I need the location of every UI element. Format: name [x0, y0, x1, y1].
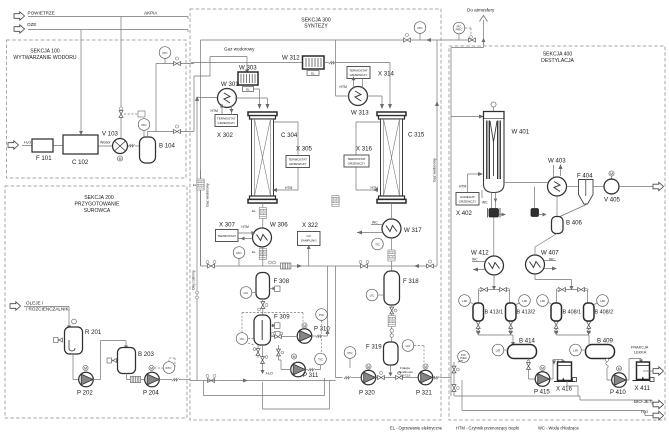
svg-text:F 309: F 309 [274, 314, 290, 321]
svg-text:P 202: P 202 [77, 390, 93, 397]
svg-text:LIR: LIR [540, 299, 546, 303]
svg-text:LIR: LIR [600, 299, 606, 303]
svg-text:PIC: PIC [236, 251, 242, 255]
svg-text:B 414: B 414 [519, 338, 536, 345]
svg-text:X 314: X 314 [378, 71, 395, 78]
svg-text:SUROWCA: SUROWCA [84, 208, 111, 214]
svg-text:C9-C19: C9-C19 [400, 374, 411, 378]
svg-text:AKPiA: AKPiA [144, 10, 158, 15]
svg-text:F 318: F 318 [403, 278, 419, 285]
svg-text:DESTYLACJA: DESTYLACJA [541, 58, 574, 64]
svg-text:X 305: X 305 [296, 146, 313, 153]
svg-text:EL: EL [246, 88, 250, 92]
svg-text:W 312: W 312 [282, 55, 300, 62]
svg-text:V 405: V 405 [604, 197, 621, 204]
svg-text:V 103: V 103 [102, 131, 119, 138]
svg-text:HTM: HTM [371, 186, 379, 190]
svg-text:EL: EL [193, 183, 197, 187]
svg-text:TERMOSTAT: TERMOSTAT [217, 234, 236, 238]
svg-text:HTM: HTM [285, 186, 293, 190]
svg-text:HTM: HTM [340, 85, 348, 89]
svg-text:WC: WC [472, 258, 478, 262]
svg-text:P 320: P 320 [359, 390, 375, 397]
svg-text:LIR: LIR [496, 349, 502, 353]
svg-text:HTM - Czynnik przenoszący ciep: HTM - Czynnik przenoszący ciepło [456, 426, 520, 431]
svg-text:SEKCJA 200: SEKCJA 200 [84, 195, 114, 201]
svg-text:B 409: B 409 [597, 338, 614, 345]
svg-text:LIC: LIC [370, 294, 376, 298]
svg-text:WC: WC [372, 221, 378, 225]
svg-text:F 308: F 308 [274, 278, 290, 285]
svg-text:Gaz wodorowy: Gaz wodorowy [224, 47, 255, 52]
svg-text:C 304: C 304 [281, 132, 298, 139]
svg-text:X 416: X 416 [556, 386, 573, 393]
svg-text:F 404: F 404 [577, 173, 593, 180]
svg-text:X 322: X 322 [302, 222, 319, 229]
svg-text:PIRC: PIRC [456, 28, 463, 32]
svg-text:PIC: PIC [417, 26, 423, 30]
svg-text:SAMPLING: SAMPLING [301, 239, 318, 243]
svg-text:X 402: X 402 [456, 210, 473, 217]
svg-text:TERMOSTAT: TERMOSTAT [349, 69, 368, 73]
svg-text:B 406: B 406 [566, 220, 583, 227]
svg-text:SEKCJA 400: SEKCJA 400 [543, 52, 573, 58]
svg-text:HTM: HTM [211, 109, 219, 113]
svg-text:GRZEWCZY: GRZEWCZY [350, 73, 368, 77]
svg-text:X 302: X 302 [217, 132, 234, 139]
svg-text:Wodór: Wodór [100, 141, 111, 145]
svg-text:F 319: F 319 [366, 344, 382, 351]
svg-text:P 311: P 311 [303, 372, 319, 379]
svg-text:P 410: P 410 [610, 389, 626, 396]
svg-text:EL: EL [252, 209, 256, 213]
svg-text:Olej roślinny: Olej roślinny [192, 270, 196, 290]
svg-text:F 101: F 101 [36, 155, 52, 162]
svg-text:W 313: W 313 [351, 110, 369, 117]
svg-text:W 401: W 401 [512, 129, 530, 136]
svg-text:Do atmosfery: Do atmosfery [467, 8, 495, 13]
svg-text:POWIETRZE: POWIETRZE [28, 11, 55, 16]
svg-text:PRZYGOTOWANIE: PRZYGOTOWANIE [75, 202, 121, 208]
svg-text:LEKKA: LEKKA [634, 351, 647, 355]
svg-text:SEKCJA 100: SEKCJA 100 [30, 49, 60, 55]
svg-text:GRZEWCZY: GRZEWCZY [289, 162, 307, 166]
svg-text:AGREGAT: AGREGAT [460, 195, 475, 199]
svg-text:P 415: P 415 [534, 389, 550, 396]
svg-text:B 413/1: B 413/1 [485, 310, 504, 316]
svg-text:B 408/1: B 408/1 [563, 310, 582, 316]
svg-text:PIC: PIC [166, 366, 172, 370]
svg-text:PIC: PIC [347, 351, 353, 355]
svg-text:Gaz wodorowy: Gaz wodorowy [433, 158, 437, 182]
svg-text:P 321: P 321 [416, 390, 432, 397]
svg-text:C 315: C 315 [408, 132, 425, 139]
svg-text:WC: WC [482, 201, 488, 205]
svg-text:B 413/2: B 413/2 [517, 310, 536, 316]
svg-text:W 407: W 407 [541, 250, 559, 257]
svg-text:EL: EL [252, 250, 256, 254]
svg-text:LIC: LIC [406, 344, 412, 348]
svg-text:HTM: HTM [242, 225, 250, 229]
svg-text:LIR: LIR [522, 299, 528, 303]
svg-text:W 301: W 301 [221, 81, 239, 88]
svg-text:W 303: W 303 [239, 65, 257, 72]
svg-text:H₂O: H₂O [24, 141, 31, 145]
svg-text:R 201: R 201 [85, 329, 102, 336]
svg-text:GC: GC [306, 234, 311, 238]
svg-text:WC: WC [549, 258, 555, 262]
svg-text:H₂O: H₂O [641, 410, 648, 414]
svg-text:C 102: C 102 [72, 159, 89, 166]
svg-text:LIR: LIR [462, 299, 468, 303]
svg-text:LIC: LIC [240, 337, 246, 341]
svg-text:X 316: X 316 [356, 146, 373, 153]
svg-text:OZE: OZE [27, 22, 36, 27]
svg-text:LIR: LIR [573, 349, 579, 353]
svg-text:WYTWARZANIE WODORU: WYTWARZANIE WODORU [13, 55, 77, 61]
svg-text:SYNTEZY: SYNTEZY [304, 24, 328, 30]
svg-text:TERMOSTAT: TERMOSTAT [347, 157, 366, 161]
svg-text:PIC: PIC [162, 51, 168, 55]
svg-text:Gaz wodorowy: Gaz wodorowy [206, 183, 210, 207]
svg-text:B 104: B 104 [159, 143, 176, 150]
svg-text:PIC: PIC [319, 313, 325, 317]
svg-text:FRAKCJA: FRAKCJA [631, 346, 649, 350]
svg-text:W 317: W 317 [404, 227, 422, 234]
svg-text:TERMOSTAT: TERMOSTAT [217, 117, 236, 121]
svg-text:W 306: W 306 [270, 222, 288, 229]
svg-text:EL: EL [311, 72, 315, 76]
svg-text:B 408/2: B 408/2 [595, 310, 614, 316]
svg-text:PIRC: PIRC [460, 356, 467, 360]
svg-text:GRZEWCZY: GRZEWCZY [459, 199, 477, 203]
svg-text:LIC: LIC [244, 291, 250, 295]
svg-text:TIC: TIC [318, 358, 324, 362]
svg-text:GRZEWCZY: GRZEWCZY [348, 162, 366, 166]
svg-text:TIC: TIC [375, 243, 381, 247]
svg-text:WC - Woda chłodząca: WC - Woda chłodząca [538, 426, 579, 431]
svg-text:X 411: X 411 [635, 385, 651, 392]
svg-text:OLEJE /: OLEJE / [26, 301, 44, 306]
svg-text:PIC: PIC [141, 123, 147, 127]
svg-text:W 403: W 403 [548, 158, 566, 165]
svg-text:BIO-JET: BIO-JET [634, 399, 652, 404]
svg-text:X 307: X 307 [219, 222, 236, 229]
svg-text:B 203: B 203 [138, 351, 155, 358]
svg-text:GRZEWCZY: GRZEWCZY [217, 121, 235, 125]
svg-text:P 204: P 204 [143, 390, 159, 397]
svg-text:H₂O: H₂O [266, 372, 273, 376]
svg-text:HTM: HTM [459, 185, 467, 189]
svg-text:W 412: W 412 [471, 250, 489, 257]
svg-text:TERMOSTAT: TERMOSTAT [288, 158, 307, 162]
svg-text:EL - Ogrzewanie elektryczne: EL - Ogrzewanie elektryczne [390, 426, 443, 431]
